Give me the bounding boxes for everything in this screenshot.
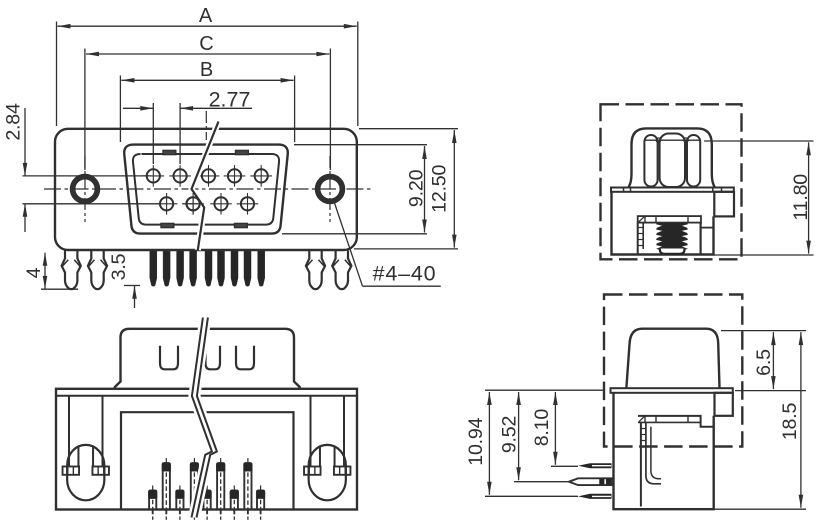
svg-text:A: A (199, 5, 213, 27)
svg-text:4: 4 (23, 267, 45, 278)
svg-text:18.5: 18.5 (779, 403, 801, 441)
svg-text:B: B (200, 59, 213, 81)
svg-text:12.50: 12.50 (428, 164, 450, 212)
svg-text:11.80: 11.80 (790, 174, 812, 221)
svg-text:8.10: 8.10 (531, 409, 553, 447)
svg-text:#4–40: #4–40 (373, 262, 437, 286)
svg-text:10.94: 10.94 (465, 417, 487, 465)
svg-text:3.5: 3.5 (108, 253, 130, 280)
svg-text:2.77: 2.77 (209, 88, 251, 112)
svg-text:6.5: 6.5 (753, 349, 775, 376)
svg-text:9.20: 9.20 (406, 169, 428, 207)
svg-text:9.52: 9.52 (499, 416, 521, 453)
svg-text:C: C (199, 33, 213, 55)
svg-text:2.84: 2.84 (2, 103, 24, 141)
